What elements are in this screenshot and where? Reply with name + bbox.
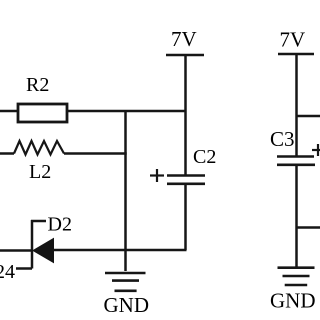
power rail bar (left 7V) <box>166 54 204 57</box>
power rail bar (right 7V) <box>278 53 314 56</box>
svg-text:24: 24 <box>0 261 15 283</box>
svg-text:GND: GND <box>270 289 316 313</box>
capacitor C2 (polarized) <box>150 169 205 184</box>
wire: L2 output to junction node <box>64 152 127 155</box>
wire: right rail tap going off right edge <box>297 115 320 118</box>
label 24 (pin label, clipped at edge) with leader tick <box>0 261 32 283</box>
inductor L2 (zigzag symbol) <box>14 141 64 155</box>
capacitor C3 (polarized) <box>277 144 320 165</box>
wire: vertical junction line from R2 wire down to ground <box>124 110 127 271</box>
svg-text:GND: GND <box>104 293 150 317</box>
wire: left 7V rail down to C2 top plate <box>184 55 187 175</box>
wire: R2 output to 7V rail node <box>67 110 186 113</box>
svg-text:C3: C3 <box>270 127 295 151</box>
svg-text:R2: R2 <box>26 74 49 96</box>
wire: C2 bottom lead down to diode wire <box>184 184 187 250</box>
wire: left input to resistor R2 <box>0 110 17 113</box>
label D2 with leader tick <box>31 214 72 236</box>
svg-text:7V: 7V <box>171 27 197 51</box>
wire: left input to diode D2 <box>0 249 33 252</box>
svg-text:D2: D2 <box>48 214 72 236</box>
wire: C3 bottom lead down to ground <box>295 165 298 267</box>
svg-text:L2: L2 <box>29 161 51 183</box>
wire: D2 output to C2 bottom node <box>53 249 187 252</box>
wire: left input to inductor L2 <box>0 152 14 155</box>
diode D2 (cathode bar and filled triangle) <box>32 220 54 269</box>
wire: C3 bottom node tap going off right edge <box>297 226 320 229</box>
ground symbol (left) <box>105 273 146 291</box>
wire: right 7V rail down to C3 top plate <box>295 54 298 157</box>
svg-text:C2: C2 <box>193 146 216 168</box>
svg-text:7V: 7V <box>280 27 306 51</box>
resistor R2 <box>18 104 67 122</box>
ground symbol (right) <box>278 268 315 285</box>
